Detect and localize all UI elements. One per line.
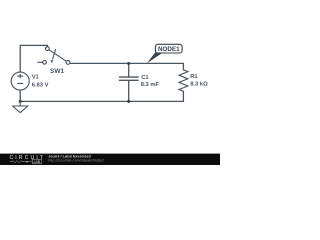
svg-text:LAB: LAB (34, 160, 41, 164)
junction dot V1/ground (19, 100, 22, 103)
wire R1 drop (182, 63, 184, 69)
svg-text:NODE1: NODE1 (158, 46, 180, 53)
wire V1 top to switch T1 (20, 45, 47, 72)
ground (13, 101, 28, 112)
capacitor C1 plates (119, 77, 139, 80)
svg-text:6.83 V: 6.83 V (32, 82, 49, 88)
footer logo arrow symbol (27, 161, 29, 163)
svg-text:http://circuitlab.com/c/8eakr3: http://circuitlab.com/c/8eakr39q6y2 (48, 158, 104, 162)
svg-text:8.3 mF: 8.3 mF (141, 82, 160, 88)
SW1 arrowhead (51, 60, 54, 63)
wire C1 top lead (128, 63, 130, 76)
footer logo second row: zigzag (10, 161, 25, 163)
footer bar (0, 154, 220, 165)
svg-text:R1: R1 (190, 74, 198, 80)
top wire (switch to resistor corner) (70, 62, 183, 64)
V1 labels (32, 74, 49, 88)
wire V1 bottom lead (19, 90, 21, 101)
svg-text:SW1: SW1 (50, 68, 64, 75)
C1 labels (141, 75, 160, 88)
node NODE1 flag box (155, 44, 182, 53)
SW1 lever (49, 50, 67, 62)
svg-text:8.3 kΩ: 8.3 kΩ (190, 82, 208, 88)
R1 labels (190, 74, 208, 88)
bottom wire (20, 100, 183, 102)
SW1 actuator arrow (53, 49, 56, 59)
junction dot top (C1/top wire) (127, 62, 130, 65)
wire R1 bottom lead (182, 91, 184, 101)
resistor R1 zigzag (179, 70, 188, 92)
voltage source V1 (11, 72, 29, 90)
svg-text:V1: V1 (32, 74, 40, 80)
footer logo LAB box (32, 159, 41, 163)
junction dot bottom (C1/bottom wire) (127, 100, 130, 103)
SW1 throw terminal T2 (left, open) (37, 61, 42, 63)
node NODE1 flag tail (147, 52, 163, 63)
wire C1 bottom lead (128, 81, 130, 101)
SW1 common terminal T3 (66, 61, 70, 65)
SW1 throw terminal T1 (top) (46, 47, 50, 51)
switch SW1 (37, 47, 70, 65)
svg-text:C1: C1 (141, 75, 149, 81)
